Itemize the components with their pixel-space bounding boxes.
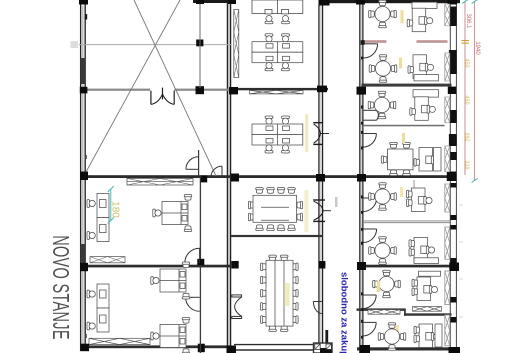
wall y236 meeting/conference divider xyxy=(231,235,323,237)
columns row y266 xyxy=(80,263,88,271)
wall y222 right block xyxy=(363,221,451,223)
svg-text:392: 392 xyxy=(464,132,470,141)
main wall y176 across plan xyxy=(80,175,452,178)
R8 window mullion xyxy=(445,315,450,346)
R3 window mullion xyxy=(445,97,450,123)
radiator room A top xyxy=(127,178,193,185)
R8 round table xyxy=(378,323,406,351)
yellow label center room xyxy=(305,114,308,152)
double door conference room on spine xyxy=(232,295,242,319)
door room B right (in x201 wall) xyxy=(186,297,200,311)
svg-text:306.1: 306.1 xyxy=(465,13,471,29)
yellow glazing strip meeting room xyxy=(304,190,308,232)
desk pair room B left xyxy=(87,284,109,332)
door R5 xyxy=(363,197,377,199)
R2 round table xyxy=(369,55,397,83)
west outer wall xyxy=(80,0,87,351)
tall cabinet with hatch xyxy=(234,10,239,78)
R1 desk xyxy=(407,2,437,32)
bottom wall center double xyxy=(234,345,313,350)
yellow dimension numbers xyxy=(464,58,470,169)
open office top cluster (half cut) xyxy=(252,0,303,24)
columns row y89 xyxy=(196,86,205,94)
svg-text:1940: 1940 xyxy=(474,41,480,55)
thin wall y127 right block xyxy=(363,125,445,127)
R4 window mullion xyxy=(445,146,450,172)
door R7 xyxy=(363,294,377,296)
R8 yellow label xyxy=(396,325,399,335)
top wall segment right part xyxy=(329,0,460,3)
stepped wall right block y309/314 xyxy=(357,308,406,311)
R4 desk xyxy=(414,148,441,172)
doors right rooms (from corridor east wall) xyxy=(363,44,379,336)
top wall segment left of spine xyxy=(193,0,236,3)
svg-text:slobodno za zakup: slobodno za zakup xyxy=(338,272,349,353)
bottom hatch sideboard room B xyxy=(89,338,150,344)
svg-text:180: 180 xyxy=(110,201,121,218)
R2 yellow label xyxy=(399,58,402,69)
desk group room B right top xyxy=(151,262,190,299)
spine wall xyxy=(227,0,231,353)
R7 yellow label xyxy=(377,281,380,292)
svg-text:310: 310 xyxy=(464,160,470,169)
door in wall y176 at x211-222 xyxy=(211,166,222,177)
column at x200/y44 xyxy=(196,40,203,47)
R5 yellow label xyxy=(400,187,403,197)
R2 desk xyxy=(408,55,439,81)
door conference room east xyxy=(313,302,322,314)
R1 yellow label xyxy=(400,10,403,23)
R4 rect table 6 seats xyxy=(381,142,413,175)
R5 round table xyxy=(369,183,397,211)
R2 window mullion xyxy=(445,53,450,81)
R7 window mullion xyxy=(445,271,450,305)
door R8 xyxy=(363,321,377,323)
office room quad cluster xyxy=(252,116,303,153)
R1 window mullion xyxy=(445,4,450,26)
svg-text:450: 450 xyxy=(464,58,470,67)
east wall window frames xyxy=(449,0,457,323)
dim line 2 xyxy=(472,0,481,183)
R7 desk xyxy=(412,271,441,300)
hatch sideboard room A bottom xyxy=(90,257,125,263)
R3 round table xyxy=(368,91,396,119)
desk group room B right bottom xyxy=(151,318,190,353)
R3 desk xyxy=(410,90,439,121)
corridor east wall xyxy=(359,0,363,353)
R8 desk xyxy=(414,324,442,348)
teal dimension with 180 label xyxy=(108,186,114,224)
gray marker square at left wall xyxy=(71,41,79,48)
double door wall y89 left block xyxy=(151,88,174,105)
R5 window mullion xyxy=(445,184,450,212)
R7 round table xyxy=(373,270,401,298)
hatch cabinets at stepped wall xyxy=(368,307,442,315)
bottom wall right block xyxy=(357,347,460,350)
R5 desk xyxy=(407,180,433,212)
door R6 xyxy=(363,228,377,230)
sideboard hatch under center wall xyxy=(250,90,304,94)
R4 yellow label xyxy=(402,133,405,143)
double-acting door corridor to center room xyxy=(313,123,329,145)
bottom wall left block xyxy=(86,345,231,348)
interior partition wall x201 lower xyxy=(197,175,207,353)
conference room long table xyxy=(261,255,299,331)
dim line 1 xyxy=(462,0,471,175)
R6 desk xyxy=(409,238,439,264)
wall y266 left block xyxy=(80,265,231,268)
faint corridor label xyxy=(335,197,338,207)
wall y89 center xyxy=(231,88,328,90)
open office cluster 2 xyxy=(252,34,303,71)
R6 round table xyxy=(369,237,397,265)
door R2 xyxy=(363,43,377,45)
pink partition walls xyxy=(364,40,387,43)
columns top row xyxy=(79,0,88,5)
double-swing door meeting room xyxy=(313,200,331,221)
corridor west wall xyxy=(318,5,323,353)
wall y85 right block xyxy=(362,84,452,87)
door hinge/latch blocks on corridor east wall xyxy=(361,40,365,338)
door room A lower right (in x201 wall) xyxy=(185,248,200,263)
faint wall ticks east xyxy=(459,205,463,317)
east outer wall base xyxy=(450,0,456,353)
columns row y176 xyxy=(80,172,88,181)
closet door (in x199 wall) xyxy=(186,157,199,170)
door R3 (double-acting) xyxy=(363,109,377,111)
R1 round table xyxy=(369,0,397,28)
wall y266 right block xyxy=(363,265,452,268)
interior partition line x200 xyxy=(199,4,201,88)
svg-text:450: 450 xyxy=(464,95,470,104)
column west wall y80 xyxy=(80,87,88,94)
desk group room A right xyxy=(153,195,192,232)
door R4 xyxy=(363,133,377,135)
meeting room table 10 chairs xyxy=(248,188,302,231)
gray beam line across X-room xyxy=(79,44,231,46)
desk pair room A left xyxy=(87,194,109,242)
R6 window mullion xyxy=(445,227,450,259)
columns bottom row xyxy=(81,344,90,352)
svg-text:NOVO STANJE: NOVO STANJE xyxy=(47,235,72,340)
closet partition x199 (y150-176) xyxy=(198,150,200,176)
wall y89 left (two segments around double door) xyxy=(84,89,150,91)
